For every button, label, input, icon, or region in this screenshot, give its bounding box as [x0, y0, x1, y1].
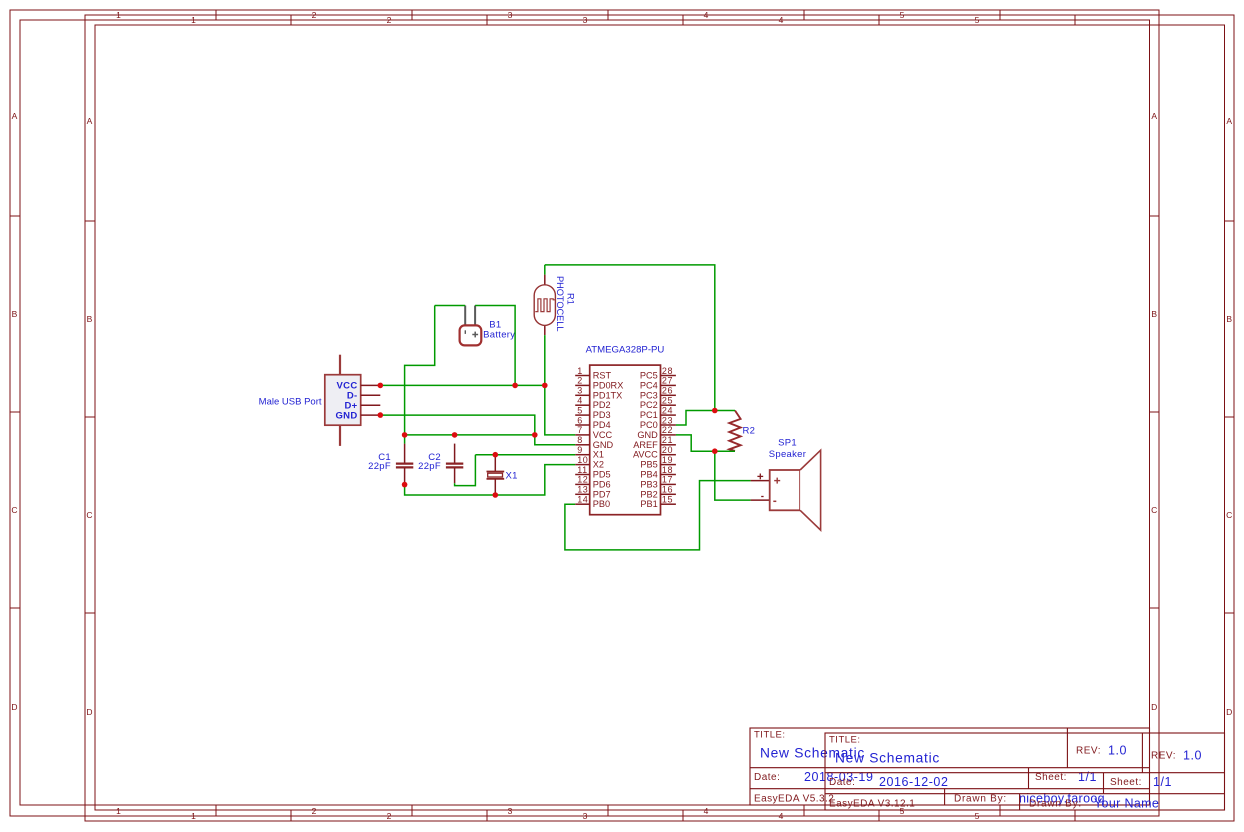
svg-text:REV:: REV:	[1151, 751, 1176, 762]
U1 pin 10 (X2)	[575, 455, 604, 470]
wire pin 23 PC0 to R2 top node	[676, 411, 715, 426]
svg-text:PC4: PC4	[640, 380, 658, 390]
wire battery left pin top	[435, 305, 466, 307]
U1 pin 16 (PB2)	[640, 485, 675, 500]
svg-text:GND: GND	[593, 440, 614, 450]
svg-text:2016-12-02: 2016-12-02	[879, 775, 948, 789]
svg-text:R1: R1	[565, 293, 575, 305]
svg-text:X1: X1	[593, 450, 604, 460]
svg-text:ATMEGA328P-PU: ATMEGA328P-PU	[586, 345, 665, 356]
U1 pin 26 (PC3)	[640, 386, 676, 401]
svg-text:VCC: VCC	[593, 430, 613, 440]
junction: X1 top on pin 9 wire	[493, 452, 499, 458]
U1 pin 12 (PD6)	[575, 475, 610, 490]
U1 pin 9 (X1)	[575, 445, 604, 460]
svg-text:Speaker: Speaker	[769, 449, 806, 460]
svg-text:PC3: PC3	[640, 390, 658, 400]
U1 pin 27 (PC4)	[640, 376, 676, 391]
U1 pin 14 (PB0)	[575, 495, 610, 510]
svg-text:New Schematic: New Schematic	[835, 751, 940, 766]
svg-text:18: 18	[662, 465, 673, 475]
U1 pin 22 (GND)	[637, 425, 676, 440]
svg-text:PB3: PB3	[640, 479, 657, 489]
svg-text:1: 1	[191, 811, 196, 821]
crystal X1	[487, 455, 518, 495]
svg-text:22pF: 22pF	[418, 461, 441, 472]
connector: Male USB Port	[259, 355, 381, 446]
svg-text:Date:: Date:	[829, 777, 855, 788]
svg-text:PB2: PB2	[640, 489, 657, 499]
wire X1 top to pin 9	[475, 454, 575, 456]
svg-text:2: 2	[387, 811, 392, 821]
svg-text:RST: RST	[593, 371, 612, 381]
junction: X1 bottom on bottom rail	[493, 492, 499, 498]
svg-text:Drawn By:: Drawn By:	[954, 794, 1007, 805]
svg-text:19: 19	[662, 455, 673, 465]
U1 pin 20 (AVCC)	[633, 445, 676, 460]
junction: C1 top on capacitor rail	[402, 432, 408, 438]
U1 pin 23 (PC0)	[640, 415, 676, 430]
svg-text:B: B	[1151, 309, 1157, 319]
svg-text:EasyEDA V3.12.1: EasyEDA V3.12.1	[829, 799, 915, 810]
U1 pin 11 (PD5)	[575, 465, 610, 480]
capacitor C2 22pF	[418, 444, 463, 484]
wire photocell top stub	[544, 265, 546, 275]
svg-text:2: 2	[577, 376, 583, 386]
svg-text:5: 5	[975, 811, 980, 821]
junction: R2 top node	[712, 408, 718, 414]
svg-text:22pF: 22pF	[368, 461, 391, 472]
svg-text:B: B	[1226, 314, 1232, 324]
wire bottom rail C1/X1 to pin 10 X2	[405, 465, 576, 495]
svg-text:4: 4	[779, 811, 784, 821]
wire photocell top rail to R2 top	[545, 265, 715, 411]
svg-text:C: C	[1226, 510, 1232, 520]
svg-text:REV:: REV:	[1076, 746, 1101, 757]
junction: R2 bottom node	[712, 448, 718, 454]
svg-text:1.0: 1.0	[1183, 749, 1202, 763]
svg-text:9: 9	[577, 445, 583, 455]
svg-text:6: 6	[577, 415, 583, 425]
svg-text:C: C	[1151, 505, 1157, 515]
svg-text:4: 4	[577, 396, 583, 406]
U1 pin 4 (PD2)	[575, 396, 610, 411]
svg-text:PC1: PC1	[640, 410, 658, 420]
wire pin 14 PB0 to speaker plus	[565, 481, 751, 550]
junction: C2 top on capacitor rail	[452, 432, 458, 438]
svg-text:3: 3	[583, 811, 588, 821]
svg-text:25: 25	[662, 396, 673, 406]
svg-text:D: D	[86, 707, 92, 717]
svg-text:PD3: PD3	[593, 410, 611, 420]
IC U1 ATMEGA328P-PU	[586, 345, 665, 515]
svg-text:R2: R2	[743, 426, 756, 437]
svg-text:D: D	[1226, 707, 1232, 717]
wire VCC net: USB VCC to photocell column	[380, 384, 545, 386]
svg-text:X1: X1	[506, 471, 518, 482]
svg-text:A: A	[12, 111, 18, 121]
speaker SP1	[751, 438, 821, 531]
svg-text:15: 15	[662, 495, 673, 505]
svg-text:PD4: PD4	[593, 420, 611, 430]
svg-text:A: A	[87, 116, 93, 126]
svg-text:27: 27	[662, 376, 673, 386]
junction: battery plus on VCC net	[512, 383, 518, 389]
resistor R2	[729, 411, 755, 451]
svg-text:2: 2	[312, 806, 317, 816]
svg-text:14: 14	[577, 495, 588, 505]
wire R2 bottom connection	[715, 450, 735, 452]
svg-text:26: 26	[662, 386, 673, 396]
svg-text:PD1TX: PD1TX	[593, 390, 623, 400]
U1 pin 28 (PC5)	[640, 366, 676, 381]
U1 pin 6 (PD4)	[575, 415, 610, 430]
svg-text:PB1: PB1	[640, 499, 657, 509]
svg-text:7: 7	[577, 425, 583, 435]
svg-text:13: 13	[577, 485, 588, 495]
wire battery minus loop to C1 junction	[405, 306, 435, 444]
svg-text:PD2: PD2	[593, 400, 611, 410]
svg-text:GND: GND	[637, 430, 658, 440]
svg-text:C: C	[11, 505, 17, 515]
svg-text:3: 3	[508, 806, 513, 816]
svg-text:11: 11	[577, 465, 587, 475]
wire pin 22 GND to R2 bottom node	[676, 435, 715, 451]
svg-text:Drawn By:: Drawn By:	[1029, 799, 1082, 810]
U1 pin 2 (PD0RX)	[575, 376, 623, 391]
svg-text:Sheet:: Sheet:	[1035, 772, 1067, 783]
svg-text:28: 28	[662, 366, 673, 376]
svg-text:Your Name: Your Name	[1094, 797, 1159, 811]
wire GND net: capacitor top rail	[405, 434, 535, 436]
svg-text:24: 24	[662, 405, 673, 415]
battery B1	[460, 306, 516, 346]
svg-text:A: A	[1226, 116, 1232, 126]
svg-text:23: 23	[662, 415, 673, 425]
svg-text:3: 3	[583, 15, 588, 25]
svg-text:Battery: Battery	[483, 330, 515, 341]
svg-text:10: 10	[577, 455, 588, 465]
svg-text:PB4: PB4	[640, 470, 657, 480]
svg-text:B: B	[87, 314, 93, 324]
svg-text:PC0: PC0	[640, 420, 658, 430]
svg-text:PD7: PD7	[593, 489, 611, 499]
U1 pin 15 (PB1)	[640, 495, 675, 510]
svg-text:X2: X2	[593, 460, 604, 470]
U1 pin 18 (PB4)	[640, 465, 675, 480]
svg-text:Male USB Port: Male USB Port	[259, 396, 322, 407]
U1 pin 3 (PD1TX)	[575, 386, 622, 401]
U1 pin 25 (PC2)	[640, 396, 676, 411]
wire GND net: USB GND to pin 8	[380, 415, 575, 445]
svg-text:16: 16	[662, 485, 673, 495]
junction: photocell column on VCC net	[542, 383, 548, 389]
svg-text:PD6: PD6	[593, 479, 611, 489]
photoresistor R1 PHOTOCELL	[534, 275, 575, 336]
U1 pin 7 (VCC)	[575, 425, 612, 440]
svg-text:A: A	[1151, 111, 1157, 121]
junction: C1 bottom	[402, 482, 408, 488]
svg-text:1/1: 1/1	[1153, 775, 1172, 789]
svg-text:PB0: PB0	[593, 499, 610, 509]
U1 pin 1 (RST)	[575, 366, 611, 381]
svg-text:1: 1	[577, 366, 583, 376]
svg-text:1: 1	[116, 806, 121, 816]
svg-text:22: 22	[662, 425, 673, 435]
svg-text:3: 3	[577, 386, 583, 396]
svg-text:EasyEDA V5.3.2: EasyEDA V5.3.2	[754, 794, 834, 805]
svg-text:4: 4	[779, 15, 784, 25]
svg-text:B: B	[12, 309, 18, 319]
U1 pin 5 (PD3)	[575, 405, 610, 420]
svg-text:PC5: PC5	[640, 371, 658, 381]
svg-text:TITLE:: TITLE:	[754, 730, 786, 741]
svg-text:C: C	[86, 510, 92, 520]
U1 pin 21 (AREF)	[633, 435, 676, 450]
junction: USB GND pin	[378, 412, 384, 418]
svg-text:AVCC: AVCC	[633, 450, 658, 460]
svg-text:17: 17	[662, 475, 673, 485]
svg-text:1/1: 1/1	[1078, 770, 1097, 784]
U1 pin 13 (PD7)	[575, 485, 610, 500]
svg-text:5: 5	[577, 405, 583, 415]
svg-text:D: D	[11, 702, 17, 712]
junction: capacitor rail joins GND drop	[532, 432, 538, 438]
wire VCC net: photocell bottom down to pin 7	[545, 335, 575, 435]
svg-text:Date:: Date:	[754, 772, 780, 783]
svg-text:21: 21	[662, 435, 673, 445]
svg-text:Sheet:: Sheet:	[1110, 777, 1142, 788]
svg-text:D: D	[1151, 702, 1157, 712]
svg-text:4: 4	[704, 806, 709, 816]
svg-text:20: 20	[662, 445, 673, 455]
svg-text:5: 5	[975, 15, 980, 25]
U1 pin 8 (GND)	[575, 435, 613, 450]
junction: USB VCC pin	[378, 383, 384, 389]
svg-text:1.0: 1.0	[1108, 744, 1127, 758]
U1 pin 19 (PB5)	[640, 455, 675, 470]
svg-text:GND: GND	[335, 410, 357, 421]
capacitor C1 22pF	[368, 444, 413, 485]
U1 pin 24 (PC1)	[640, 405, 676, 420]
svg-text:12: 12	[577, 475, 588, 485]
wire R2 top connection	[715, 410, 735, 412]
U1 pin 17 (PB3)	[640, 475, 675, 490]
svg-text:TITLE:: TITLE:	[829, 735, 861, 746]
svg-text:PD0RX: PD0RX	[593, 380, 624, 390]
svg-text:AREF: AREF	[633, 440, 658, 450]
svg-text:PD5: PD5	[593, 470, 611, 480]
svg-text:SP1: SP1	[778, 438, 797, 449]
wire C2 bottom jog	[455, 455, 476, 486]
wire battery plus to VCC	[475, 306, 515, 386]
svg-text:PB5: PB5	[640, 460, 657, 470]
svg-text:8: 8	[577, 435, 583, 445]
wire R2 bottom to speaker minus	[715, 451, 751, 500]
svg-text:1: 1	[191, 15, 196, 25]
svg-text:PC2: PC2	[640, 400, 658, 410]
svg-text:2: 2	[387, 15, 392, 25]
svg-text:PHOTOCELL: PHOTOCELL	[555, 276, 565, 331]
